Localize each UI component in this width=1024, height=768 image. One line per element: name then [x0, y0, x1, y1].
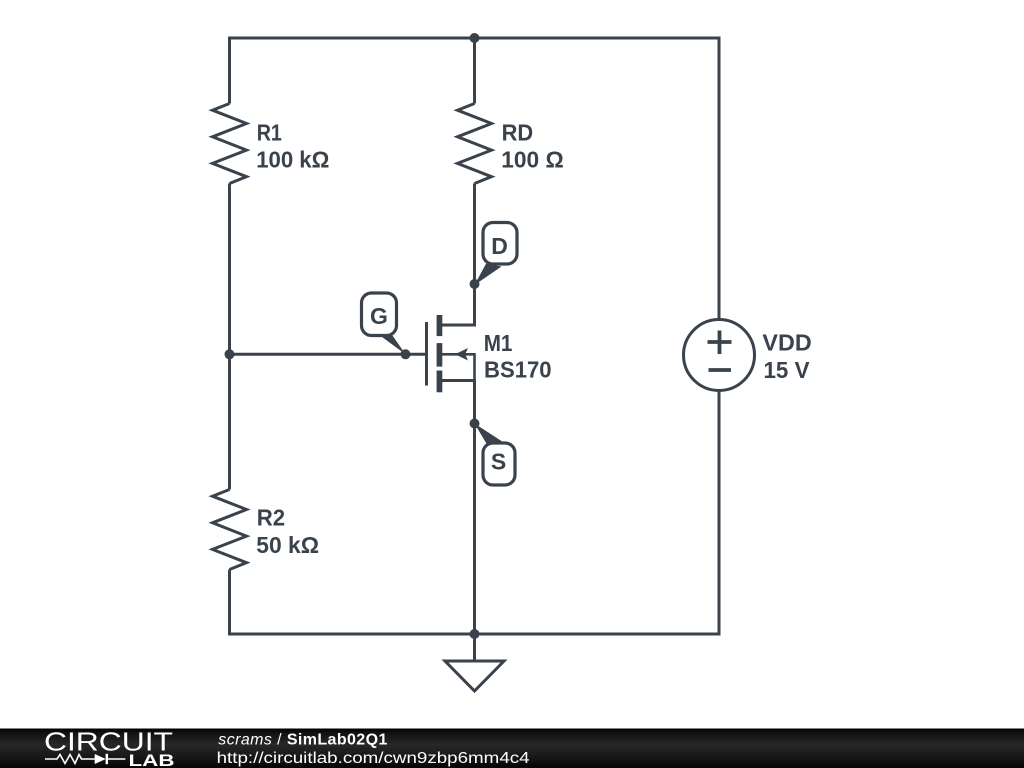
wire drain vertical — [442, 184, 475, 326]
node junction top — [470, 33, 480, 43]
svg-text:R1: R1 — [257, 120, 282, 146]
wire bottom rail — [230, 391, 720, 635]
resistor R1 — [213, 104, 247, 184]
wire left middle (R1 bottom to R2 top) — [228, 184, 231, 490]
svg-text:15 V: 15 V — [764, 357, 811, 383]
svg-text:VDD: VDD — [762, 330, 811, 356]
footer logo diode triangle — [95, 754, 106, 764]
wire top rail — [230, 38, 720, 320]
transistor M1 gate line — [425, 322, 428, 386]
svg-text:D: D — [491, 233, 508, 259]
wire source vertical — [442, 381, 475, 635]
flag D box — [483, 223, 517, 265]
resistor RD — [458, 104, 492, 184]
svg-text:M1: M1 — [484, 330, 513, 356]
svg-text:LAB: LAB — [129, 752, 175, 768]
node junction left gate — [225, 349, 235, 359]
svg-text:RD: RD — [502, 120, 534, 146]
svg-text:100 Ω: 100 Ω — [501, 147, 564, 173]
flag S pointer — [475, 424, 504, 445]
resistor R2 — [213, 490, 247, 570]
footer logo resistor-diode line — [45, 754, 125, 764]
flag D pointer — [475, 264, 502, 285]
transistor M1 body arrow — [455, 348, 468, 361]
svg-text:100 kΩ: 100 kΩ — [256, 147, 329, 173]
transistor M1 drain bar — [437, 315, 443, 336]
footer bar — [0, 729, 1024, 768]
wire body connection — [442, 354, 475, 380]
svg-text:G: G — [370, 303, 388, 329]
wire gate horizontal — [230, 353, 426, 356]
svg-text:S: S — [491, 448, 506, 474]
voltage source minus sign — [709, 368, 732, 372]
node junction bottom — [470, 629, 480, 639]
node D attach dot — [470, 279, 480, 289]
flag G box — [362, 293, 397, 336]
voltage source VDD circle — [684, 320, 755, 391]
svg-text:scrams / SimLab02Q1: scrams / SimLab02Q1 — [218, 732, 387, 749]
transistor M1 source bar — [437, 371, 443, 393]
svg-text:50 kΩ: 50 kΩ — [256, 532, 319, 558]
ground — [445, 634, 504, 691]
svg-text:http://circuitlab.com/cwn9zbp6: http://circuitlab.com/cwn9zbp6mm4c4 — [217, 750, 530, 767]
flag G pointer — [376, 333, 406, 355]
transistor M1 body bar — [437, 343, 443, 367]
voltage source plus sign — [708, 331, 732, 371]
svg-text:BS170: BS170 — [484, 357, 552, 383]
flag S box — [483, 443, 515, 485]
node G attach dot — [401, 349, 411, 359]
wire RD top stub — [473, 38, 476, 104]
svg-text:R2: R2 — [257, 504, 285, 530]
node S attach dot — [470, 419, 480, 429]
